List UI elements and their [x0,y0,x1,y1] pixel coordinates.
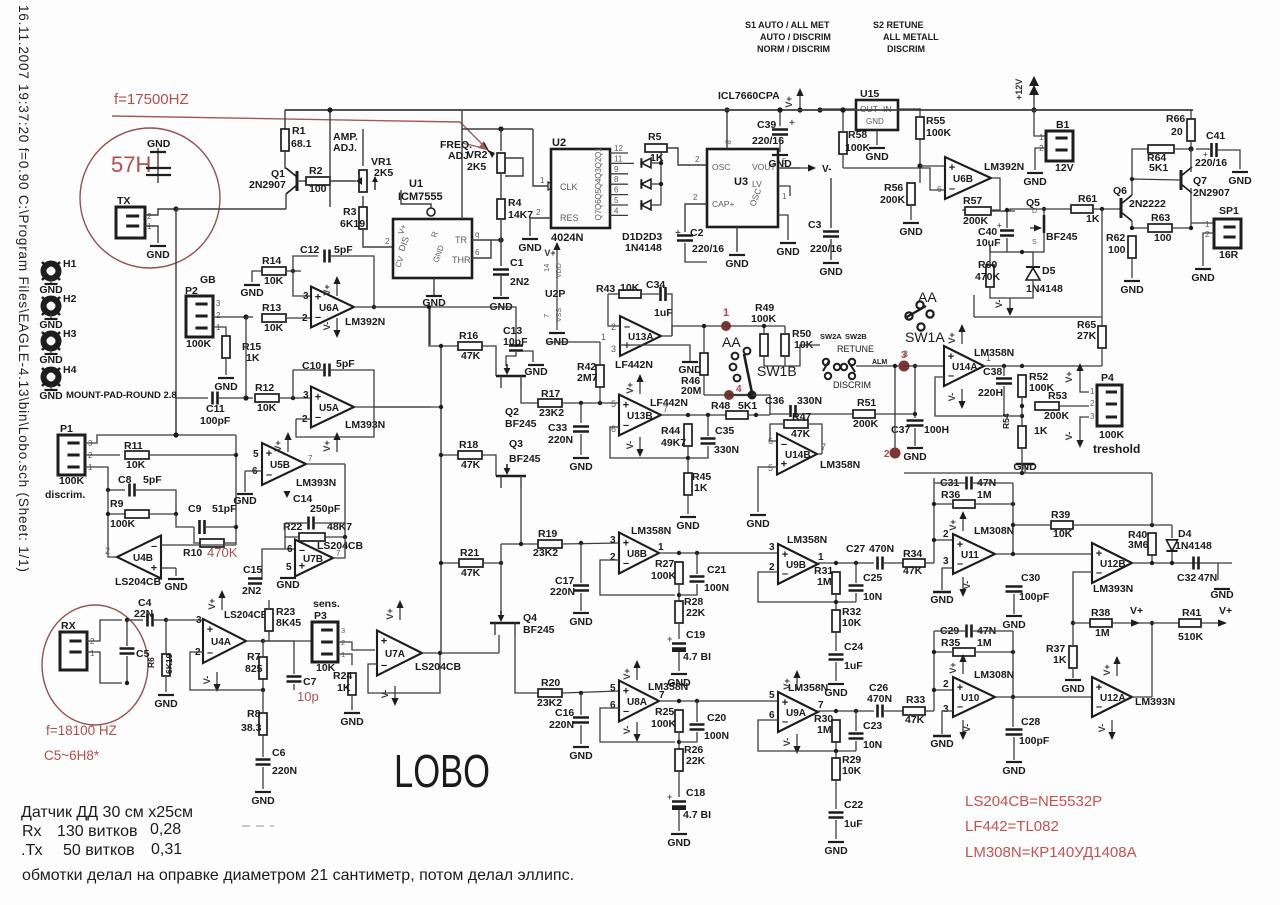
ground under R62 [1120,281,1144,296]
svg-text:LS204CB: LS204CB [115,576,162,588]
pin 3 of U4A [196,615,202,626]
svg-text:R38: R38 [1091,607,1110,619]
svg-text:7: 7 [659,690,665,701]
label discrim [45,489,85,501]
junction U13A out [0,0,1,1]
svg-text:+: + [667,792,672,802]
wire U4B plus gnd [175,568,177,576]
svg-text:R63: R63 [1151,212,1170,224]
wire U15 gnd [876,130,878,145]
svg-text:R9: R9 [110,498,124,510]
junction R40 out [1150,561,1154,565]
svg-text:470N: 470N [867,693,892,705]
svg-text:5: 5 [614,196,619,205]
svg-text:GND: GND [776,246,800,258]
junction C25 top [854,561,858,565]
svg-text:+: + [623,686,629,698]
svg-text:C7: C7 [303,676,317,688]
svg-text:C8: C8 [118,474,132,486]
svg-text:f=17500HZ: f=17500HZ [114,91,189,108]
svg-text:R41: R41 [1182,607,1201,619]
label AA at SW1B [722,334,741,350]
capacitor C23 [849,720,883,751]
svg-text:1M: 1M [1095,627,1110,639]
pin 2 of U3 cap [693,193,698,202]
wire U4B minus in [168,544,176,546]
junction U1 TR node [498,237,503,242]
wire R50 to sw2 region [785,345,820,366]
junction U7A out [438,651,442,655]
junction R31 top [834,561,838,565]
switch legend S1 [745,20,831,54]
wire C15 to U7B minus [262,549,285,580]
wire R13 to U6A minus [286,317,311,319]
bus drop x330 [329,110,331,207]
svg-text:C33: C33 [548,422,567,434]
wire U5A fb [296,394,374,437]
svg-text:THR: THR [452,255,471,265]
pin 7 of U7B [336,549,341,558]
svg-text:GND: GND [930,738,954,750]
wire C14 right [315,523,345,537]
svg-text:1M: 1M [977,637,992,649]
wire R10 row [194,527,206,543]
resistor R44 [661,424,692,449]
resistor R12 [255,382,279,414]
svg-text:50 витков: 50 витков [63,842,135,859]
svg-text:V-: V- [380,690,390,699]
ground of U13A plus [678,362,702,376]
svg-text:1M: 1M [977,489,992,501]
wire C19 gnd [678,652,680,671]
resistor R15 [222,336,261,364]
svg-text:R43: R43 [596,283,615,295]
svg-text:C22: C22 [844,799,863,811]
wire V- col U14A [973,295,975,317]
capacitor C24 [829,641,864,672]
resistor R54 [1001,413,1048,448]
pin 2 of SP1 [1205,230,1210,239]
svg-text:6K19: 6K19 [164,653,174,674]
wire R50 bottom [784,356,786,366]
svg-text:VSS: VSS [556,308,563,322]
ground under U14B [746,515,770,530]
wire R55 node to U6B [920,165,945,167]
op-amp U12B [1092,543,1132,583]
svg-text:V+: V+ [622,668,632,679]
resistor R18 [458,439,482,471]
wire C41 left [1196,149,1209,150]
ground under C28 [1002,762,1026,777]
wire R49 bottom [764,356,785,366]
wire R26 to C18 [678,771,680,797]
red label 470K of R10 [207,545,238,560]
wire C17 stub [580,543,582,583]
capacitor C3 [808,219,842,255]
note sensor size [21,804,193,821]
wire D4 stubs [1171,525,1173,538]
svg-text:GND: GND [154,698,178,710]
wire R64 right [1174,148,1191,150]
power V- of U12A [1097,720,1116,740]
svg-text:C39: C39 [757,119,776,131]
wire U5B out right [306,463,345,465]
svg-text:LM393N: LM393N [345,419,385,431]
P3 pin numbers [341,626,345,659]
wire R27 bottom node [678,584,680,603]
wire U12B minus loop [1073,572,1092,623]
op-amp U13B [619,395,661,436]
svg-text:V-: V- [782,738,792,747]
svg-text:GND: GND [819,266,843,278]
wire R42 top jog [546,341,600,343]
svg-text:100N: 100N [704,730,729,742]
wire R46 bottom [703,375,705,395]
power V+ of U10 [948,654,967,674]
wire AA node to R49 R50 [726,325,785,327]
wire U9A out row [818,710,874,712]
svg-text:V+: V+ [544,248,555,258]
connector SP1 [1214,205,1241,248]
diode D1 [641,158,651,168]
wire U8A minus loop [600,708,675,742]
svg-text:LM358N: LM358N [788,682,828,694]
label SW1A [905,329,945,345]
capacitor C40 [1000,231,1014,236]
resistor R30 [814,713,840,742]
svg-text:Q1: Q1 [594,147,603,158]
wire R63 left [1132,227,1148,229]
svg-text:sens.: sens. [313,598,340,610]
svg-text:V+: V+ [947,332,957,343]
junction bus x843 [840,107,845,112]
wire U8A out row [659,700,778,702]
svg-text:12: 12 [614,144,623,153]
svg-text:1N4148: 1N4148 [1175,540,1212,552]
svg-text:200K: 200K [1044,410,1070,422]
svg-text:q: q [475,230,479,239]
wire U4A minus [190,652,263,690]
svg-text:R36: R36 [941,489,960,501]
capacitor C1 [493,257,529,288]
wire C10 right to fb [331,370,374,394]
capacitor C31 [967,477,972,490]
resistor R56 [880,182,915,206]
svg-text:100K: 100K [926,127,952,139]
svg-text:6: 6 [937,185,942,194]
transistor Q6 [1113,185,1166,221]
wire U10 out [995,696,1092,698]
wire V+ to bus [799,108,801,110]
svg-text:5: 5 [611,399,616,409]
C18 plus and plate [667,792,686,808]
wire R51 right [875,413,915,415]
pin 1 of TX [147,222,152,231]
power V+ of U4A [207,590,226,610]
wire C8 right [136,490,176,513]
junction R22 out [343,535,347,539]
svg-text:R13: R13 [262,302,281,314]
svg-text:100N: 100N [704,582,729,594]
svg-text:6K19: 6K19 [340,218,365,230]
wire VR2 wiper loop [505,158,523,176]
wire R3 to U1 DIS [363,229,393,247]
VR2 wiper arrow [484,143,495,158]
svg-text:R66: R66 [1166,113,1185,125]
wire P2 pin1 to R15 [213,327,226,336]
junction R8 top [261,688,265,692]
resistor R42 [577,361,604,387]
svg-text:250pF: 250pF [310,503,341,515]
power V+ for U2 [544,242,560,262]
resistor R10 [183,539,224,559]
svg-text:GND: GND [1191,272,1215,284]
svg-text:R2: R2 [309,165,323,177]
junction R54 rail [1020,471,1024,475]
red annotation f=18100 HZ [46,723,117,738]
wire U8B minus loop [600,560,675,595]
resistor R3 [340,206,367,230]
capacitor C8 [130,484,135,497]
wire U4B plus in [161,567,176,569]
wire R48 node to U14B [755,415,757,441]
wire U5A out [354,406,374,408]
junction bus x920 [0,0,1,1]
C31 labels [940,477,996,489]
wire pad H4 gnd [50,385,52,389]
label D1D2D3 [622,231,662,243]
op-amp U14B [777,434,817,475]
svg-text:2: 2 [105,546,110,556]
svg-text:220N: 220N [550,586,575,598]
junction R35 right [1011,650,1015,654]
VR1 wiper arrow [356,176,378,190]
capacitor C2 [677,227,724,255]
label LM358N of U9B [787,534,827,546]
svg-text:4024N: 4024N [551,232,583,244]
label SW2A [820,332,842,341]
wire R21 to gate net [483,562,501,564]
junction C31 R36 left [0,0,1,1]
pin 3 of U5A [303,390,309,401]
wire R11 right [149,454,236,456]
transistor Q5 [1026,197,1078,246]
pin 3 of U8B [610,535,616,546]
wire x330 to VR1 top [330,128,363,130]
svg-text:100pF: 100pF [1019,735,1050,747]
wire R35 left [934,651,953,653]
label 12V [1055,162,1074,174]
label 100K of P1 [59,475,85,487]
junction R9 C9 [174,512,178,516]
ground under U7B [276,578,300,591]
svg-text:100pF: 100pF [1019,591,1050,603]
wire R8 top stub [262,690,264,713]
svg-text:U13B: U13B [627,411,653,422]
svg-text:5K1: 5K1 [738,400,757,412]
svg-text:2: 2 [385,237,390,246]
wire C5 top [126,620,128,646]
junction bus x462 [0,0,1,1]
switch SW1B contacts [730,348,751,382]
svg-text:P4: P4 [1101,372,1114,384]
svg-text:U2: U2 [552,137,566,149]
wire C31 right [973,482,1013,484]
svg-text:1M: 1M [817,576,832,588]
svg-text:U13A: U13A [628,332,654,343]
red pin label 3 [901,350,907,361]
svg-text:ALM: ALM [872,359,887,366]
svg-text:1: 1 [782,192,787,201]
junction R37 R38 [1071,621,1075,625]
power V- of U8A [622,722,641,742]
rail x1152 upper [1151,473,1153,525]
svg-text:P2: P2 [185,285,198,297]
wire R52 bottom [1021,397,1023,427]
junction R36 left [932,502,936,506]
label LS204CB of U4A [224,610,268,621]
wire R5 to U3 OSC [667,148,707,165]
wire C23 bottom [855,741,857,751]
svg-text:SW2B: SW2B [845,332,867,341]
junction P1 net [173,432,178,437]
wire C16 gnd [580,725,582,744]
svg-text:+: + [1203,150,1208,159]
svg-text:C2: C2 [690,227,704,239]
wire P4 pin3 [1080,417,1089,428]
capacitor C6 [256,747,298,777]
svg-text:BF245: BF245 [1046,231,1078,243]
svg-text:Q6: Q6 [1113,185,1127,197]
wire TX pin1 to gnd [145,226,158,243]
svg-text:BF245: BF245 [505,418,537,430]
svg-text:+: + [667,634,672,644]
svg-text:GND: GND [866,117,884,126]
wire D3 out [652,204,661,206]
V- arrow at U3 VOUT [800,164,831,175]
svg-text:H2: H2 [63,293,77,305]
wire C11 row [176,397,208,399]
svg-text:R3: R3 [343,206,357,218]
resistor R53 [1035,390,1070,422]
wire R45 gnd [687,495,689,514]
svg-text:ICL7660CPA: ICL7660CPA [718,90,780,102]
svg-text:2K5: 2K5 [467,161,486,173]
op-amp U13A [620,316,661,356]
junction R66 R64 C41 [1188,146,1193,151]
wire pad H2 gnd [50,314,52,318]
ground under C1 [489,298,513,313]
wire U14B out [818,453,822,455]
ground under H1 [39,284,63,296]
resistor R60 [975,259,1001,287]
svg-text:Q3: Q3 [594,168,603,179]
svg-text:B1: B1 [1056,119,1070,131]
label 100K of P2 [186,338,212,350]
wire R38 to V+ [1112,622,1152,624]
wire R42 bottom [599,387,601,403]
svg-text:220H: 220H [978,387,1003,399]
svg-text:+: + [675,228,681,239]
wire U2 output Q5 [610,194,628,196]
label LS204CB of U4B [115,576,162,588]
wire C9 right [206,526,236,528]
wire R31 bottom [835,594,837,611]
wire loop join [1013,415,1022,417]
capacitor C14 [309,517,314,530]
svg-text:U2P: U2P [545,288,565,300]
junction diode bus 1 [659,161,663,165]
wire RX pin2 [87,620,122,641]
svg-text:10K: 10K [842,765,862,777]
power V+ of U14A [947,324,966,344]
pin 6 of U13B [611,424,616,434]
wire U7A minus fb [368,653,440,693]
C19 plus and plate [667,634,686,650]
wire C12 right to fb [331,256,374,306]
label 10K of P3 [316,662,336,674]
svg-text:C15: C15 [243,564,262,576]
switch SW2 levers [823,361,855,372]
transistor Q3 [496,438,541,488]
ground under U3 right [776,243,800,258]
wire C18 gnd [678,810,680,831]
svg-text:C24: C24 [844,641,863,653]
wire D2 out [652,183,661,185]
V- arrow below D5 [994,298,1014,316]
svg-text:C6: C6 [272,747,286,759]
capacitor C22 [829,799,864,830]
svg-text:LM392N: LM392N [345,316,385,328]
resistor R65 [1077,319,1106,348]
svg-text:R18: R18 [459,439,478,451]
label AA at SW1A [918,289,937,305]
wire R55 to R56 [919,139,921,183]
wire R41 row [1152,622,1179,624]
svg-text:38.3: 38.3 [241,722,262,734]
wire RX to C4 [127,619,143,621]
C14 arrow marker [284,491,291,498]
ground under C41 [1228,172,1252,187]
svg-text:GND: GND [214,381,238,393]
pin 2 of U5A [302,414,308,425]
resistor R4 [497,197,533,221]
connector RX [60,620,87,670]
wire C16 stub [580,693,582,715]
svg-text:RETUNE: RETUNE [837,344,874,354]
svg-text:1M: 1M [817,724,832,736]
svg-text:R21: R21 [460,547,479,559]
switch SW1B lever [744,354,752,393]
svg-text:LM358N: LM358N [820,459,860,471]
resistor R48 [711,400,757,419]
junction R46 top [702,324,706,328]
label LS204CB of U7A [415,661,462,673]
svg-text:R48: R48 [711,400,730,412]
svg-text:1: 1 [658,542,664,553]
wire R37 gnd [1072,668,1074,678]
power V+ of U9A [782,670,801,690]
resistor R14 [262,255,286,287]
svg-text:GND: GND [667,837,691,849]
wire U9B minus loop [758,572,856,602]
wire R57 to Q5 row [991,209,1072,211]
bus drop x462 [461,110,463,129]
ground under U5B [233,494,257,507]
wire U12A out [1132,696,1152,698]
svg-text:S: S [1032,239,1037,246]
junction U15 out [817,107,822,112]
